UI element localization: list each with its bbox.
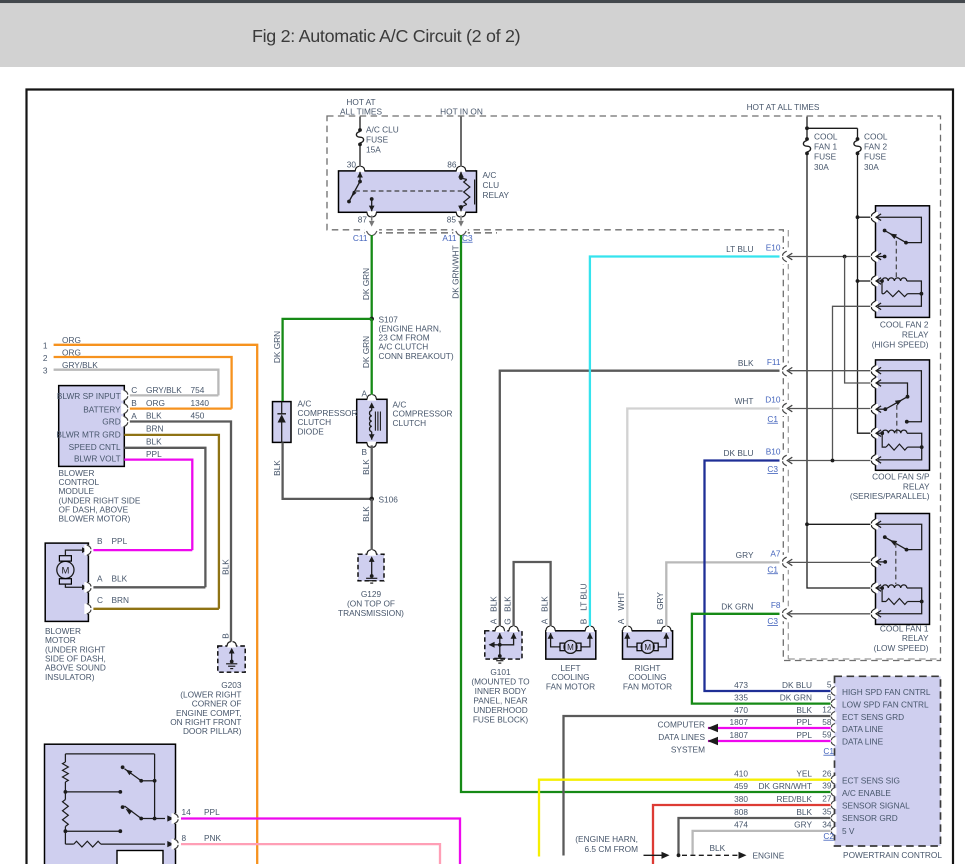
svg-text:58: 58: [822, 717, 832, 727]
blower switch assembly box: [45, 744, 176, 864]
junction dot tap 1: [64, 790, 68, 794]
svg-text:GRY: GRY: [736, 550, 754, 560]
wire DK GRN S107 to clutch pin A: [371, 319, 373, 395]
svg-text:HOT AT ALL TIMES: HOT AT ALL TIMES: [747, 102, 820, 112]
ground G203 box: [218, 646, 245, 672]
svg-text:12: 12: [822, 704, 832, 714]
BCM pin B arc: [121, 403, 129, 413]
svg-text:DK GRN: DK GRN: [272, 331, 282, 363]
svg-text:LOW SPD FAN CNTRL: LOW SPD FAN CNTRL: [842, 699, 929, 709]
connector E10: [783, 251, 787, 262]
svg-text:ORG: ORG: [146, 398, 165, 408]
svg-text:S106: S106: [379, 494, 399, 504]
svg-text:WHT: WHT: [735, 396, 754, 406]
bottom resistor to pin 8: [64, 831, 66, 844]
junction dot cool fan fuse split: [805, 126, 809, 130]
svg-text:470: 470: [734, 705, 748, 715]
fan2 relay linkage dashed: [895, 241, 897, 277]
svg-text:C11: C11: [353, 233, 368, 243]
svg-text:DK GRN: DK GRN: [780, 692, 812, 702]
svg-text:G101: G101: [490, 667, 511, 677]
engine ground leader line and splice: [644, 854, 662, 856]
gray wire A7 to relay: [789, 561, 872, 563]
connector F8: [783, 609, 787, 620]
svg-text:5: 5: [827, 680, 832, 690]
svg-text:87: 87: [358, 215, 368, 225]
wire BCM BLWR VOLT PPL: [124, 460, 192, 550]
BCM pin C arc: [121, 390, 129, 400]
svg-text:BLK: BLK: [221, 559, 231, 575]
svg-text:1807: 1807: [730, 730, 749, 740]
svg-text:450: 450: [191, 411, 205, 421]
G101 pin A bump: [495, 630, 504, 633]
svg-text:1: 1: [43, 340, 48, 350]
svg-text:A/C: A/C: [483, 170, 497, 180]
svg-text:SYSTEM: SYSTEM: [671, 745, 705, 755]
wire hot-at-all-times feed to A/C CLU fuse: [359, 117, 361, 130]
svg-text:Fig 2: Automatic A/C Circuit (: Fig 2: Automatic A/C Circuit (2 of 2): [252, 26, 520, 46]
svg-text:808: 808: [734, 807, 748, 817]
svg-text:RED/BLK: RED/BLK: [776, 794, 812, 804]
hot-feed dashed boundary (L-shape): [327, 116, 941, 661]
wire hot-in-on feed to relay pin 86: [460, 117, 462, 167]
switch pin 8 arc: [172, 839, 180, 849]
svg-text:SPEED CNTL: SPEED CNTL: [69, 442, 121, 452]
s/p relay switch arm: [885, 397, 907, 410]
svg-text:TRANSMISSION): TRANSMISSION): [338, 608, 404, 618]
connector leadout at x=461 (smile, gray shaft, arrow, smile): [460, 216, 462, 221]
svg-text:CONN BREAKOUT): CONN BREAKOUT): [379, 351, 454, 361]
wire LT BLU left fan motor pin B to E10: [590, 257, 780, 627]
wire blower motor pin B PPL: [93, 549, 192, 551]
svg-text:B: B: [131, 398, 137, 408]
blower control module box: [59, 386, 125, 467]
svg-text:BLK: BLK: [539, 596, 549, 612]
svg-text:B: B: [361, 447, 367, 457]
left cooling fan motor box: [546, 631, 596, 659]
svg-text:M: M: [567, 643, 574, 652]
fan2 relay pin3 connector arc+arrow: [870, 276, 878, 286]
svg-text:PPL: PPL: [796, 717, 812, 727]
wire split to cool fan 2 fuse: [807, 127, 858, 129]
svg-text:BLK: BLK: [502, 596, 512, 612]
svg-text:COMPUTER: COMPUTER: [658, 720, 705, 730]
switch assembly inner notch: [117, 851, 163, 864]
fan2 relay pin2 internal stub: [877, 256, 885, 258]
fan1 relay pin4 connector arc+arrow: [870, 609, 878, 619]
svg-text:PPL: PPL: [796, 730, 812, 740]
svg-text:BLK: BLK: [361, 506, 371, 522]
svg-text:335: 335: [734, 692, 748, 702]
svg-text:30A: 30A: [814, 162, 829, 172]
wire fuse to relay pin 30: [359, 144, 361, 166]
wire BLK S106 to G129: [371, 499, 373, 550]
blower motor pin C arc: [84, 604, 92, 614]
svg-text:C: C: [131, 385, 137, 395]
svg-text:5 V: 5 V: [842, 826, 855, 836]
diode internal symbol: [281, 402, 283, 414]
G203 connector bump: [227, 645, 236, 648]
svg-text:COOL FAN 1: COOL FAN 1: [880, 623, 929, 633]
svg-text:LT BLU: LT BLU: [579, 583, 589, 610]
svg-text:C1: C1: [823, 746, 834, 756]
svg-text:HIGH SPD FAN CNTRL: HIGH SPD FAN CNTRL: [842, 687, 931, 697]
fan1 relay switch pivot and arm: [883, 535, 887, 539]
svg-text:LT BLU: LT BLU: [726, 244, 753, 254]
svg-text:27: 27: [822, 794, 832, 804]
wire WHT right fan motor pin A to D10: [627, 409, 779, 627]
fan1 relay pin2 connector arc+arrow: [870, 557, 878, 567]
left fan motor internals: [548, 633, 554, 639]
relay internal arrow at pin 86: [458, 172, 464, 178]
svg-text:(MOUNTED TO: (MOUNTED TO: [471, 677, 530, 687]
connector F11: [783, 365, 787, 376]
right fan motor pin B bump: [662, 630, 671, 633]
s/p relay pin2 connector arc+arrow: [870, 378, 878, 388]
wire 3 GRY/BLK: [54, 370, 219, 396]
svg-text:COOL FAN 2: COOL FAN 2: [880, 319, 929, 329]
fuse COOL FAN 1 FUSE 30A: [805, 137, 809, 141]
underhood fuse block inner dashed edge: [787, 230, 789, 659]
A/C CLU relay box: [339, 171, 477, 212]
svg-text:6.5 CM FROM: 6.5 CM FROM: [585, 844, 639, 854]
fan1 relay pin1 internal path to contact: [877, 524, 922, 549]
wire fan1 fuse vertical tap to fan1 relay pin1: [807, 523, 872, 525]
svg-text:GRY/BLK: GRY/BLK: [62, 360, 98, 370]
junction dot fan2 pin4 to B10 row: [831, 459, 835, 463]
svg-text:C1: C1: [767, 564, 778, 574]
tap 1 stub: [65, 791, 120, 793]
clutch pin B bump: [367, 442, 376, 445]
svg-text:BLK: BLK: [361, 459, 371, 475]
svg-text:INSULATOR): INSULATOR): [45, 672, 95, 682]
svg-text:26: 26: [822, 768, 832, 778]
cool fan s/p relay box: [876, 360, 930, 470]
tap 2 stub: [65, 830, 120, 832]
wire blower motor pin C BRN: [93, 608, 218, 610]
relay coil core bar: [474, 180, 476, 205]
relay internal arrow at pin 30: [357, 172, 363, 178]
G129 connector bump: [367, 553, 376, 556]
svg-text:DATA LINE: DATA LINE: [842, 737, 884, 747]
svg-text:PNK: PNK: [204, 833, 222, 843]
svg-text:PPL: PPL: [204, 807, 220, 817]
wire cool fan 2 fuse output down to s/p relay coil pin: [858, 153, 872, 433]
svg-text:B: B: [221, 633, 231, 639]
svg-text:DK GRN: DK GRN: [361, 268, 371, 300]
switch assembly resistor 1: [64, 754, 66, 762]
s/p relay pin1 connector arc+arrow: [870, 366, 878, 376]
svg-text:FUSE: FUSE: [864, 152, 887, 162]
junction dot fan2 relay coil feed: [856, 279, 860, 283]
blower motor brush bottom: [59, 579, 71, 584]
svg-text:B10: B10: [766, 446, 781, 456]
connector A7: [783, 557, 787, 568]
svg-text:BLK: BLK: [796, 807, 812, 817]
svg-text:WHT: WHT: [616, 592, 626, 611]
wire E10 junction down to s/p relay pin2: [845, 257, 872, 384]
wire BLK 808 SENSOR GRD: [679, 818, 831, 855]
relay A/C CLU pin 30 bump: [356, 170, 365, 173]
fan1 relay linkage dashed: [895, 543, 897, 584]
switch 1 contacts and arm: [121, 765, 125, 769]
switch assembly resistor 2: [64, 792, 66, 800]
svg-text:C3: C3: [767, 616, 778, 626]
relay coil to pin 85: [460, 207, 462, 211]
wire BLK 470 ECT SENS GRD: [564, 716, 831, 856]
svg-text:DIODE: DIODE: [298, 426, 325, 436]
svg-text:35: 35: [822, 807, 832, 817]
junction dot on E10 row feeding s/p relay pin2: [843, 255, 847, 259]
s/p relay pin5 connector arc+arrow: [870, 455, 878, 465]
relay coil zigzag: [461, 178, 467, 180]
right fan motor internals: [624, 633, 630, 639]
svg-text:M: M: [644, 643, 651, 652]
svg-text:C2: C2: [823, 831, 834, 841]
wire PPL 1807 data line 58: [708, 727, 831, 729]
svg-text:BLWR SP INPUT: BLWR SP INPUT: [57, 391, 121, 401]
svg-text:ALL TIMES: ALL TIMES: [340, 107, 382, 117]
left fan motor pin B bump: [586, 630, 595, 633]
svg-text:A: A: [97, 573, 103, 583]
relay switch arm: [349, 182, 360, 202]
blower motor pin B arc: [84, 545, 92, 555]
gray wire D10 to relay: [789, 408, 872, 410]
fan1 relay pin3 connector arc+arrow: [870, 583, 878, 593]
wire BLK diode to S106: [283, 442, 372, 499]
wire YEL 410 ECT SENS SIG: [539, 780, 831, 857]
fan2 relay pin2 connector arc+arrow: [870, 251, 878, 261]
right fan motor pin A bump: [623, 630, 632, 633]
svg-text:C3: C3: [767, 464, 778, 474]
fan2 relay pin1 internal path to contact: [877, 217, 922, 242]
clutch pin A bump: [367, 398, 376, 401]
fan2 relay pin4 connector arc+arrow: [870, 301, 878, 311]
svg-text:POWERTRAIN CONTROL: POWERTRAIN CONTROL: [843, 850, 942, 860]
svg-text:COOL: COOL: [814, 132, 838, 142]
svg-text:BLK: BLK: [112, 573, 128, 583]
svg-text:GRY/BLK: GRY/BLK: [146, 385, 182, 395]
svg-text:A11: A11: [442, 233, 457, 243]
svg-text:BLK: BLK: [710, 843, 726, 853]
s/p relay pin3 connector arc+arrow: [870, 404, 878, 414]
wire DK GRN F8 to PCM pin 6: [692, 614, 831, 704]
connector leadout at x=371.7 (smile, gray shaft, arrow, smile): [371, 216, 373, 221]
svg-text:(SERIES/PARALLEL): (SERIES/PARALLEL): [850, 491, 930, 501]
switch 2 contacts and arm: [121, 805, 125, 809]
wire cool fan 1 fuse output down to fan1 relay coil: [807, 153, 872, 588]
right cooling fan motor box: [623, 631, 673, 659]
wire PNK 8 to bottom: [181, 844, 440, 864]
svg-text:A: A: [489, 618, 499, 624]
BCM pin A arc: [121, 416, 129, 426]
junction dot tap 2: [64, 829, 68, 833]
svg-text:A: A: [539, 618, 549, 624]
svg-text:A/C CLU: A/C CLU: [366, 124, 399, 134]
fan2 relay resistor: [881, 281, 883, 294]
svg-text:1340: 1340: [191, 398, 210, 408]
svg-text:CLUTCH: CLUTCH: [393, 418, 427, 428]
svg-text:GRD: GRD: [102, 417, 120, 427]
connector B10: [783, 455, 787, 466]
svg-text:410: 410: [734, 769, 748, 779]
svg-text:A: A: [361, 388, 367, 398]
wire DK GRN S107 branch to diode: [283, 319, 372, 401]
cool fan 1 relay box: [876, 514, 930, 625]
svg-text:30A: 30A: [864, 162, 879, 172]
svg-text:FAN MOTOR: FAN MOTOR: [623, 681, 672, 691]
svg-text:GRY: GRY: [655, 592, 665, 610]
junction dot fan1 relay pin1 feed: [805, 522, 809, 526]
blower motor internal wiring to pin B: [65, 550, 85, 556]
svg-text:PPL: PPL: [146, 449, 162, 459]
PCM pin arcs: [831, 687, 837, 695]
svg-text:BRN: BRN: [146, 424, 164, 434]
switch assembly right bus: [154, 754, 156, 819]
svg-text:B: B: [579, 618, 589, 624]
svg-text:D10: D10: [765, 395, 781, 405]
svg-text:(ENGINE HARN,: (ENGINE HARN,: [575, 834, 638, 844]
splice S106 dot: [369, 497, 374, 502]
svg-text:FAN MOTOR: FAN MOTOR: [546, 681, 595, 691]
svg-text:BRN: BRN: [112, 595, 130, 605]
fuse A/C CLU FUSE 15A: [358, 128, 362, 132]
powertrain control module box: [835, 676, 941, 846]
svg-text:2: 2: [43, 353, 48, 363]
wire BLK clutch pin B to S106: [371, 445, 373, 499]
gray wire F11 to relay: [789, 370, 872, 372]
wire PPL 1807 data line 59: [708, 740, 831, 742]
svg-text:DK GRN: DK GRN: [361, 336, 371, 368]
blower motor pin A arc: [84, 582, 92, 592]
svg-text:BLK: BLK: [738, 358, 754, 368]
junction dot fan2 relay pin1 feed: [856, 215, 860, 219]
cool fan 2 relay box: [876, 206, 930, 318]
svg-text:C3: C3: [462, 233, 473, 243]
svg-text:474: 474: [734, 820, 748, 830]
fan1 relay pin1 connector arc+arrow: [870, 519, 878, 529]
relay A/C CLU pin 86 bump: [457, 170, 466, 173]
switch assembly top bus: [65, 753, 154, 755]
blower motor box: [45, 543, 88, 621]
svg-text:SENSOR SIGNAL: SENSOR SIGNAL: [842, 800, 910, 810]
svg-text:ORG: ORG: [62, 347, 81, 357]
wire BCM BLWR MTR GRD BRN: [124, 435, 219, 609]
svg-text:DK BLU: DK BLU: [782, 680, 812, 690]
gray wire F8 to relay: [789, 613, 872, 615]
s/p relay to pin5: [877, 447, 922, 460]
svg-text:FUSE BLOCK): FUSE BLOCK): [473, 715, 529, 725]
wire PPL 14 to bottom: [181, 819, 460, 864]
svg-text:ORG: ORG: [62, 335, 81, 345]
svg-text:BATTERY: BATTERY: [83, 405, 121, 415]
svg-text:ECT SENS GRD: ECT SENS GRD: [842, 712, 904, 722]
svg-text:A/C ENABLE: A/C ENABLE: [842, 788, 891, 798]
A/C compressor clutch diode box: [273, 402, 292, 443]
wire DK GRN/WHT A11 down to PCM A/C ENABLE row: [461, 235, 831, 792]
svg-text:BLOWER MOTOR): BLOWER MOTOR): [59, 514, 131, 524]
wire fan2 relay pin4 down to B10 row: [833, 306, 872, 460]
svg-text:YEL: YEL: [796, 769, 812, 779]
ground G129 box: [358, 554, 384, 581]
svg-text:1807: 1807: [730, 717, 749, 727]
wire blower motor pin A BLK: [93, 586, 205, 588]
wire BCM SPEED CNTL BLK: [124, 448, 205, 588]
svg-text:RELAY: RELAY: [902, 633, 929, 643]
svg-text:(HIGH SPEED): (HIGH SPEED): [872, 340, 929, 350]
svg-text:BLK: BLK: [272, 460, 282, 476]
svg-text:FAN 2: FAN 2: [864, 142, 887, 152]
svg-text:380: 380: [734, 794, 748, 804]
svg-text:INNER BODY: INNER BODY: [475, 686, 527, 696]
svg-text:M: M: [61, 565, 69, 576]
svg-text:A: A: [131, 411, 137, 421]
s/p relay coil: [877, 432, 883, 434]
relay switch pivot dot: [358, 180, 362, 184]
svg-text:14: 14: [182, 807, 192, 817]
svg-text:15A: 15A: [366, 145, 381, 155]
svg-text:DK GRN: DK GRN: [721, 602, 753, 612]
svg-text:754: 754: [191, 385, 205, 395]
switch pin 14 arc: [172, 813, 180, 823]
svg-text:DK GRN/WHT: DK GRN/WHT: [759, 781, 812, 791]
svg-text:A: A: [616, 618, 626, 624]
relay A/C CLU pin 87 bump: [367, 211, 376, 214]
wire BLK left fan motor pin A to G101 pin G: [514, 562, 551, 626]
ground G129 internal arrow and ground symbol: [369, 556, 375, 562]
ground G203 internal arrow and ground symbol: [229, 648, 235, 654]
svg-text:BLK: BLK: [146, 437, 162, 447]
connector D10: [783, 403, 787, 414]
wire BCM pin A BLK 450 down to G203: [130, 422, 231, 642]
svg-text:59: 59: [822, 730, 832, 740]
fan1 relay resistor: [882, 588, 886, 602]
svg-text:BLWR MTR GRD: BLWR MTR GRD: [56, 430, 120, 440]
svg-text:F11: F11: [767, 357, 781, 367]
fuse COOL FAN 2 FUSE 30A: [856, 137, 860, 141]
svg-text:DATA LINES: DATA LINES: [658, 732, 705, 742]
svg-text:ENGINE: ENGINE: [753, 851, 785, 861]
splice S107 dot: [369, 317, 374, 322]
wire BCM pin C GRY/BLK 754: [130, 394, 219, 396]
svg-text:B: B: [97, 536, 103, 546]
blower motor internal wiring to pin A: [65, 584, 85, 587]
svg-text:RELAY: RELAY: [902, 329, 929, 339]
clutch internal coil: [369, 402, 375, 408]
svg-text:HOT AT: HOT AT: [346, 97, 375, 107]
wire RED/BLK 380 SENSOR SIGNAL: [653, 805, 831, 864]
svg-text:B: B: [655, 618, 665, 624]
fan2 relay coil: [877, 280, 883, 282]
s/p relay pin2 internal path to pivot: [877, 383, 908, 397]
gray wire B10 to relay: [789, 460, 872, 462]
svg-text:(ON TOP OF: (ON TOP OF: [347, 598, 395, 608]
blower motor armature circle: [57, 561, 74, 578]
svg-text:COOL FAN S/P: COOL FAN S/P: [872, 472, 930, 482]
svg-text:34: 34: [822, 819, 832, 829]
svg-text:G129: G129: [361, 589, 382, 599]
svg-text:A7: A7: [770, 549, 781, 559]
gray wire E10 to relay: [789, 256, 872, 258]
relay coil terminal dots: [459, 176, 463, 180]
svg-text:FAN 1: FAN 1: [814, 142, 837, 152]
svg-text:FUSE: FUSE: [366, 135, 389, 145]
svg-text:F8: F8: [771, 600, 781, 610]
fan1 relay coil: [877, 587, 883, 589]
blower motor brush top: [59, 556, 71, 561]
A/C compressor clutch box: [357, 399, 387, 442]
wire GRY 474 5V: [693, 831, 831, 855]
